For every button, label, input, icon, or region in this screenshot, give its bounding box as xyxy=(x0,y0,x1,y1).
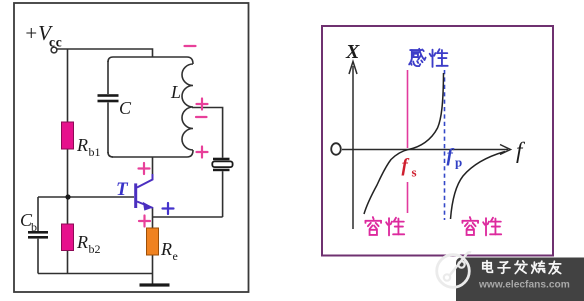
svg-text:C: C xyxy=(119,98,132,118)
svg-text:www.elecfans.com: www.elecfans.com xyxy=(478,280,570,291)
svg-text:cc: cc xyxy=(49,35,63,50)
svg-text:R: R xyxy=(160,239,172,259)
svg-text:R: R xyxy=(76,232,88,252)
svg-text:e: e xyxy=(173,249,178,263)
svg-text:R: R xyxy=(76,135,88,155)
svg-text:b1: b1 xyxy=(89,145,101,159)
svg-text:T: T xyxy=(116,179,129,200)
svg-text:p: p xyxy=(455,155,462,170)
svg-text:b: b xyxy=(31,220,37,234)
svg-text:b2: b2 xyxy=(89,242,101,256)
svg-text:L: L xyxy=(170,82,181,102)
svg-text:X: X xyxy=(345,41,360,63)
svg-text:s: s xyxy=(412,165,417,180)
